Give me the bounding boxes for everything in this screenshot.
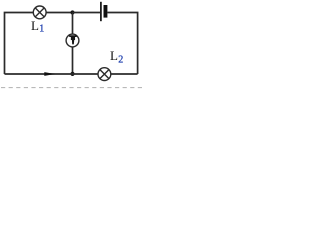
lamp L1 xyxy=(33,6,46,19)
battery long plate (+) xyxy=(100,2,102,21)
svg-text:2: 2 xyxy=(118,55,123,66)
node A (junction dot) xyxy=(70,10,74,14)
wire bottom-left segment xyxy=(5,73,99,75)
svg-text:L: L xyxy=(110,48,118,63)
wire voltmeter down to node B xyxy=(72,47,74,74)
current arrow xyxy=(44,72,55,76)
dashed line xyxy=(1,87,143,89)
wire L1 to node A xyxy=(46,12,72,14)
wire top-left segment xyxy=(5,13,34,75)
wire L2 to bottom-right corner xyxy=(111,73,138,75)
svg-text:1: 1 xyxy=(39,24,44,35)
wire battery to top-right corner and down xyxy=(107,13,137,75)
svg-text:L: L xyxy=(31,18,39,33)
wire node A down to voltmeter xyxy=(72,13,74,35)
voltmeter V label xyxy=(69,35,76,44)
voltmeter U1 xyxy=(66,34,79,47)
lamp L2 xyxy=(98,68,111,81)
battery short thick plate (-) xyxy=(104,5,108,18)
node B (junction dot) xyxy=(70,72,74,76)
wire node A to battery xyxy=(73,12,101,14)
